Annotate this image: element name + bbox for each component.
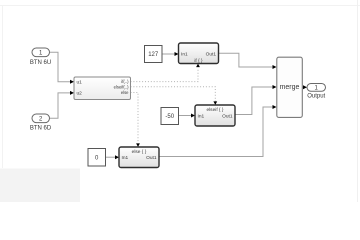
svg-text:In1: In1	[198, 114, 205, 120]
svg-text:BTN 6D: BTN 6D	[30, 125, 52, 131]
svg-text:Out1: Out1	[146, 155, 157, 161]
svg-text:else: else	[121, 90, 129, 95]
svg-text:u1: u1	[77, 80, 83, 86]
svg-text:-50: -50	[165, 114, 174, 120]
svg-text:In1: In1	[122, 155, 129, 161]
svg-text:elseif { }: elseif { }	[206, 107, 223, 113]
svg-text:In1: In1	[181, 52, 188, 58]
svg-text:BTN 6U: BTN 6U	[30, 60, 51, 66]
svg-text:Output: Output	[307, 94, 325, 100]
svg-text:Out1: Out1	[206, 52, 217, 58]
svg-text:Out1: Out1	[222, 114, 233, 120]
svg-text:elseif(..): elseif(..)	[114, 84, 129, 89]
svg-text:merge: merge	[280, 84, 300, 91]
svg-text:u2: u2	[77, 91, 83, 97]
svg-text:127: 127	[148, 52, 159, 58]
svg-text:if { }: if { }	[194, 58, 203, 64]
svg-text:else { }: else { }	[132, 149, 147, 155]
